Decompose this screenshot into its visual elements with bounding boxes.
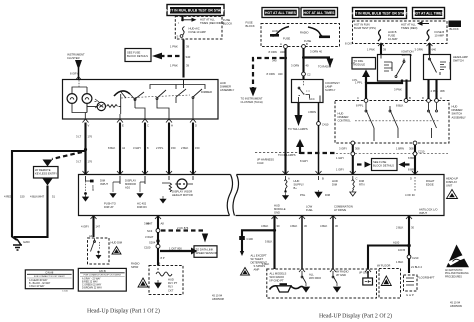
svg-text:HOT AT ALL TIMES: HOT AT ALL TIMES [304,11,336,15]
svg-text:150: 150 [195,146,200,150]
doc id part1 [212,294,224,302]
ground switch under wire2 part2 [299,269,321,293]
svg-text:SPEED SENSOR: SPEED SENSOR [196,251,217,255]
svg-text:ALL EXCEPT: ALL EXCEPT [251,254,268,258]
splice S204 dot [156,239,159,242]
svg-text:C210: C210 [418,150,425,154]
fuse HUD (part1) symbol [182,27,206,36]
svg-text:HOT AT ALL TIMES: HOT AT ALL TIMES [265,11,297,15]
svg-text:DIM: DIM [359,179,365,183]
interior part1: fusible link + ground under first wire [83,176,96,201]
svg-text:4 BLK: 4 BLK [261,224,269,228]
svg-text:UNIT: UNIT [446,184,453,188]
svg-text:DIM UP: DIM UP [104,205,114,209]
svg-text:4 PPL: 4 PPL [431,89,439,93]
svg-text:HOT AT ALL: HOT AT ALL [200,18,215,22]
svg-text:W/O RDO: W/O RDO [309,276,321,280]
svg-text:W/ REMOTE: W/ REMOTE [35,168,51,172]
svg-text:RIGHT: RIGHT [426,179,435,183]
chassis ground strap symbol [270,283,307,292]
ground wire 1 part2 [261,216,280,270]
connector C100 circle [156,244,160,248]
fuse block tag part2 right [449,21,462,31]
svg-text:G200: G200 [23,240,30,244]
svg-text:147: 147 [96,225,101,229]
svg-text:10 AMP: 10 AMP [435,34,445,38]
svg-text:DETERRENT: DETERRENT [251,261,268,265]
svg-text:DISPLAY: DISPLAY [125,179,136,183]
svg-text:A CLEAR 40 WAY: A CLEAR 40 WAY [29,279,48,282]
svg-text:30: 30 [304,224,307,228]
svg-text:W/ THEFT: W/ THEFT [251,257,264,261]
svg-text:G or P: G or P [406,293,414,297]
arrow hot at all times inside fuse block [401,21,429,30]
svg-text:308: 308 [355,147,360,151]
svg-text:2 BLK: 2 BLK [181,146,189,150]
svg-text:CLUSTER (TACH): CLUSTER (TACH) [241,100,263,104]
svg-text:LP DRIVE: LP DRIVE [334,208,346,212]
svg-text:39: 39 [383,48,386,52]
svg-text:3 PNK: 3 PNK [394,88,402,92]
svg-text:A4: A4 [89,234,93,238]
svg-text:C2: C2 [307,73,311,77]
svg-text:HUD: HUD [272,29,278,33]
wire to C410 [308,103,329,175]
header HOT AT ALL TIMES (3) [413,8,445,19]
svg-text:HOT IN RUN, BULB TEST OR START: HOT IN RUN, BULB TEST OR START [350,12,410,16]
header HOT AT ALL TIMES (2) [301,8,338,18]
pins on dimmer assembly top [356,96,442,108]
branch wire to ground box [368,241,409,270]
svg-text:ALL MODELS: ALL MODELS [270,272,287,276]
svg-text:C410: C410 [322,123,329,127]
ground distribution dashed box part2 [267,269,377,298]
ignition switch box part2 [378,50,414,82]
svg-text:100 B: 100 B [398,248,405,252]
svg-text:39: 39 [186,64,189,68]
svg-text:DIMMER: DIMMER [201,90,212,94]
svg-text:3 ORN: 3 ORN [291,64,299,68]
svg-text:S40: S40 [186,55,191,59]
svg-text:RTN: RTN [359,183,365,187]
svg-text:C 100: C 100 [62,291,69,293]
svg-text:3 GRY: 3 GRY [133,146,141,150]
svg-text:4 OF 30: 4 OF 30 [405,193,415,197]
svg-text:D BROWN 22 WAY: D BROWN 22 WAY [82,287,102,290]
svg-text:150: 150 [171,146,176,150]
svg-text:B: B [322,177,324,181]
connector C210 dashed line across [336,150,448,156]
warning triangle part2 left [241,268,250,276]
svg-text:IGNITION: IGNITION [402,50,414,54]
svg-text:FUSE: FUSE [388,34,395,38]
svg-text:44: 44 [122,146,125,150]
svg-text:C: C [357,96,359,100]
ground loop wire left [12,148,87,240]
svg-text:RADIO: RADIO [131,262,140,266]
svg-text:FUSE B: FUSE B [435,30,445,34]
HEAD-UP DISPLAY long box [79,175,445,216]
wire 4 part2 with junction [396,216,423,274]
svg-text:176: 176 [88,160,93,164]
svg-text:45 10 94: 45 10 94 [450,301,461,305]
svg-text:3 ORN: 3 ORN [415,48,423,52]
svg-text:TO INSTRUMENT: TO INSTRUMENT [241,97,263,101]
ground switch under wire3 part2 [330,269,349,293]
up arrow spliced from panel lamps [255,139,335,165]
connector table A [25,270,73,293]
header HOT IN RUN BULB TEST OR START (part2) [350,8,410,19]
pin A circle part2 left [280,42,287,48]
dimmer limit dashed box [88,234,123,264]
svg-text:HC 402: HC 402 [137,202,147,206]
svg-text:BLOCK: BLOCK [246,24,255,28]
svg-text:BLOCK: BLOCK [223,22,232,26]
branch arrow to radio [304,50,334,69]
svg-text:MODULE: MODULE [274,207,286,211]
svg-text:I/P GND: I/P GND [336,273,346,277]
wire 5 [181,119,200,175]
thick link ignition to DRL junction [366,80,402,101]
wire 8 ORN 340 [267,49,289,175]
internal wiring of dimmer box [72,80,193,120]
svg-text:10 AMP: 10 AMP [388,37,398,41]
svg-text:8 PPL: 8 PPL [356,104,364,108]
pin B circle part2 left [302,42,308,48]
svg-text:8 P: 8 P [161,256,165,260]
svg-text:1 PNK: 1 PNK [367,48,375,52]
svg-text:A6: A6 [157,262,161,266]
svg-text:S: S [177,35,179,39]
connector C2 circle [302,72,311,76]
connector C210 circle 1 + dashed branch arrow [156,226,208,243]
splice S40 dashed arrow to SEE FUSE BLOCK DETAILS [152,53,183,60]
wire row labels part1 serial [144,222,165,261]
svg-text:HUD: HUD [220,81,226,85]
svg-text:PROCEDURES: PROCEDURES [445,275,462,278]
triangle marker right of HUD box [447,190,458,199]
svg-text:I/P HARNESS: I/P HARNESS [257,158,274,162]
svg-text:B+: B+ [294,186,298,190]
svg-text:DIMMER: DIMMER [452,108,463,112]
svg-text:4 BLK/WHT: 4 BLK/WHT [30,195,45,199]
svg-text:FUSE: FUSE [283,37,290,41]
svg-text:A: A [440,96,442,100]
svg-text:4 BRN: 4 BRN [308,110,316,114]
svg-text:30: 30 [335,224,338,228]
svg-text:1 GRY: 1 GRY [336,168,344,172]
pin letters dimmer box exits [88,124,198,128]
connector callout box [34,167,59,179]
svg-text:51: 51 [52,195,55,199]
svg-text:ADJ: ADJ [125,186,131,190]
svg-text:ACC: ACC [309,97,315,101]
svg-text:3 ORN 40: 3 ORN 40 [310,50,322,54]
svg-text:AMP: AMP [254,268,260,272]
svg-text:DISPLAY VISOR: DISPLAY VISOR [172,190,192,194]
headlamp switch box part2 [424,55,468,80]
svg-text:TO TAIL LAMPS: TO TAIL LAMPS [288,127,308,131]
svg-text:45 10 94: 45 10 94 [212,294,223,298]
svg-text:HUD: HUD [338,112,344,116]
fuse block label part2 left [246,21,255,29]
svg-text:Head-Up Display (Part 1 Of 2): Head-Up Display (Part 1 Of 2) [87,307,160,314]
floorshift console dashed box part2 [377,264,401,299]
fuse HUD (part2 left) [270,27,290,41]
ESD black triangle logo [445,245,471,279]
wire 3 ORN 640 part2 [415,43,437,55]
svg-text:C GREEN 22 WAY: C GREEN 22 WAY [82,284,102,287]
svg-text:1 BRN: 1 BRN [396,147,404,151]
svg-text:HUD DIM: HUD DIM [111,241,123,245]
svg-text:A GRAY - 22 WAY: A GRAY - 22 WAY [82,278,101,281]
svg-text:TO DRL: TO DRL [354,59,364,63]
svg-text:E: E [122,124,124,128]
HUD unit label right [446,177,458,188]
rheostat wiper [114,91,130,98]
svg-text:176: 176 [88,135,93,139]
svg-text:TIMES (RED): TIMES (RED) [401,26,418,30]
svg-text:5 BLK: 5 BLK [265,240,273,244]
HUD dimmer switch box (top) [63,80,219,120]
svg-text:3 WHT: 3 WHT [145,235,154,239]
svg-text:W/ FLOOR: W/ FLOOR [377,264,390,268]
svg-text:A100: A100 [393,241,400,245]
wire 3 [133,119,149,175]
svg-text:8 BRN: 8 BRN [408,168,416,172]
labels above radio dashed box [131,262,161,270]
svg-text:HUD: HUD [452,105,458,109]
header HOT AT ALL TIMES (1) [262,8,299,18]
svg-text:4 RED: 4 RED [4,195,12,199]
inline connector triangle upper [43,160,53,167]
svg-text:21 BLK 2: 21 BLK 2 [411,265,423,269]
svg-text:C: C [147,124,149,128]
header HOT IN RUN BULB TEST OR START (part1) [166,5,226,16]
svg-text:B RED 22 WAY: B RED 22 WAY [82,281,98,284]
resistor in dimmer [107,105,118,108]
svg-text:FUSE: FUSE [246,21,253,25]
svg-text:A5005609: A5005609 [450,304,462,308]
fuse block dashed box part2 left [261,24,340,47]
svg-text:30: 30 [277,224,280,228]
svg-text:SUPPLY: SUPPLY [325,88,336,92]
svg-text:340: 340 [278,72,283,76]
callout box SEE FUSE BLOCK DETAILS [125,49,151,62]
lamp L1 [67,94,77,104]
splice arrow to data link box [160,247,198,255]
svg-text:HUD: HUD [168,278,174,282]
svg-text:TIMES (RED WIRE): TIMES (RED WIRE) [200,21,224,25]
svg-text:RLY PT: RLY PT [168,281,178,285]
dimmer assembly internal text [338,112,352,123]
svg-text:C/N B: C/N B [99,270,106,273]
lamp L2 [82,94,92,104]
wire 1 PNK 39 part2 [367,43,386,55]
svg-text:DIM: DIM [332,183,338,187]
svg-text:1 PPL: 1 PPL [355,81,363,85]
svg-text:FUEL: FUEL [306,208,313,212]
svg-text:KEYLESS ENTRY: KEYLESS ENTRY [35,172,57,176]
svg-text:308: 308 [440,89,445,93]
svg-text:C100: C100 [247,237,254,241]
doc id part2 [450,301,462,309]
dashed branch to instrument cluster [241,58,285,104]
svg-text:TO DATA LINK: TO DATA LINK [196,247,214,251]
svg-text:DISPLAY: DISPLAY [446,180,457,184]
connector table B [78,268,126,291]
svg-text:A: A [280,42,282,46]
instrument panel callout box with arrows [357,159,411,171]
svg-text:HUD: HUD [91,185,95,191]
courtesy lamp switch box [292,80,341,103]
svg-text:HUD-A/C: HUD-A/C [189,27,200,31]
svg-text:340: 340 [280,50,285,54]
wire 4 CKT 147 [81,216,100,238]
svg-text:DIM DN: DIM DN [137,205,147,209]
svg-text:ALL: ALL [309,273,314,277]
svg-text:B - BLACK - 32 WAY: B - BLACK - 32 WAY [29,282,51,285]
fuse block (part1) dashed [175,16,232,39]
photocell LED symbol [95,99,106,111]
fuse A 10 AMP [378,30,398,42]
svg-text:TO RADIO: TO RADIO [318,65,331,69]
serial data wire below part1 [146,216,161,266]
svg-text:B: B [306,42,308,46]
wire 2 part2 [290,216,307,270]
svg-text:C410: C410 [257,161,264,165]
svg-text:640: 640 [432,48,437,52]
svg-text:DIMMER: DIMMER [338,115,349,119]
reference note column part2 left [251,254,268,272]
svg-text:8 BRN: 8 BRN [408,156,416,160]
ground G200 symbol [13,239,30,250]
wire 4 [156,119,176,175]
fuse block dashed box part2 right [353,21,448,44]
wire ignition pin2 down [394,80,407,101]
svg-text:BLOCK DETAILS: BLOCK DETAILS [127,54,148,58]
svg-text:MIRROR: MIRROR [125,182,136,186]
svg-text:3 LT: 3 LT [76,160,82,164]
svg-text:SEE FUSE: SEE FUSE [373,160,386,164]
svg-text:CONTROL: CONTROL [338,119,352,123]
svg-text:SWITCH: SWITCH [452,112,463,116]
svg-text:3 WHT: 3 WHT [144,222,153,226]
svg-text:A5005608: A5005608 [212,297,224,301]
svg-text:HUD: HUD [332,179,338,183]
wire CKT 39 vertical from fuse [170,40,191,78]
fuse block pin (part1) [177,35,183,39]
svg-text:SWITCH: SWITCH [402,53,413,57]
DRL module callout box [352,58,376,70]
dimmer assembly switches [355,103,440,138]
svg-text:BLOCK DETAILS: BLOCK DETAILS [373,164,394,168]
data link callout box [194,246,217,257]
arrow up into DRL module [355,70,370,85]
svg-text:INPUT: INPUT [419,211,427,215]
svg-text:SPKR: SPKR [131,265,138,269]
svg-text:8 GRY: 8 GRY [300,159,308,163]
ground wire from connector [4,186,55,238]
caption part 2 [319,312,392,319]
fuse RDO (part2 left) [300,27,330,43]
svg-text:HUD: HUD [274,204,280,208]
svg-text:TO I/P LAMPS: TO I/P LAMPS [278,153,296,157]
svg-text:MODULE: MODULE [354,63,366,67]
svg-text:SC3: SC3 [147,229,153,233]
wire 1 CKT 30B down right [396,145,418,175]
svg-text:2 CK 876: 2 CK 876 [177,226,189,230]
svg-text:INPUT: INPUT [100,182,108,186]
svg-text:V: V [88,124,90,128]
svg-text:D: D [422,96,424,100]
svg-text:FLOORSHIFT: FLOORSHIFT [418,276,435,280]
svg-text:40: 40 [306,64,309,68]
fuse B 10 AMP [427,30,445,42]
svg-text:FUSE 10 AMP: FUSE 10 AMP [189,30,207,34]
svg-text:C100: C100 [144,246,151,250]
svg-text:GND: GND [274,211,280,215]
svg-text:W/O RADIO: W/O RADIO [270,275,285,279]
svg-text:COURTESY: COURTESY [325,81,340,85]
svg-text:4 BLK: 4 BLK [320,224,328,228]
svg-text:A: A [288,177,290,181]
wire 2 [108,119,125,175]
caption part 1 [87,307,160,314]
svg-text:RLY: RLY [168,285,173,289]
HUD dimmer switch assembly dashed box [335,101,466,144]
svg-text:C BLU 16 WAY: C BLU 16 WAY [29,285,45,288]
svg-text:39: 39 [186,45,189,49]
G200 small dashed box [404,275,435,297]
svg-text:C210: C210 [412,256,419,260]
svg-text:HEAD-UP: HEAD-UP [446,177,458,181]
warning triangle part1 lower [138,278,148,287]
svg-text:DIM: DIM [100,179,106,183]
svg-text:1 GRY: 1 GRY [336,156,344,160]
svg-text:4 BLK: 4 BLK [290,224,298,228]
wire 3 ORN 40 [291,49,309,80]
HUD box interior part2 [274,176,438,215]
svg-text:S SPKRS: S SPKRS [254,264,266,268]
svg-text:H: H [171,124,173,128]
svg-text:D: D [410,177,412,181]
svg-text:CKT: CKT [168,288,174,292]
svg-text:ASSEMBLY: ASSEMBLY [452,115,466,119]
svg-text:RADIO: RADIO [300,31,309,35]
svg-text:1 CKT 800: 1 CKT 800 [169,247,182,251]
svg-text:340: 340 [272,59,277,63]
svg-text:3 LT: 3 LT [76,135,82,139]
svg-text:HOT IN RUN, BULB TEST OR START: HOT IN RUN, BULB TEST OR START [166,9,226,13]
wire 3 part2 [320,216,338,270]
label HUD dimmer assembly [220,81,234,92]
svg-text:1 BLK: 1 BLK [396,260,404,264]
svg-text:HOT AT ALL: HOT AT ALL [401,23,416,27]
svg-text:150: 150 [20,195,25,199]
inline connector triangle lower [43,179,53,186]
svg-text:EDGE: EDGE [426,183,434,187]
svg-text:DIM: DIM [325,193,331,197]
pins on dimmer assembly bottom [351,138,417,145]
svg-text:SEE FUSE: SEE FUSE [127,51,140,55]
switch contacts row [121,80,212,101]
svg-text:HEIGHT MOTOR: HEIGHT MOTOR [172,193,193,197]
warning triangle in floorshift box [381,276,391,286]
svg-text:BULB TEST (PPL): BULB TEST (PPL) [354,26,376,30]
svg-text:SUPPLY: SUPPLY [294,183,305,187]
svg-text:HUD: HUD [294,179,300,183]
